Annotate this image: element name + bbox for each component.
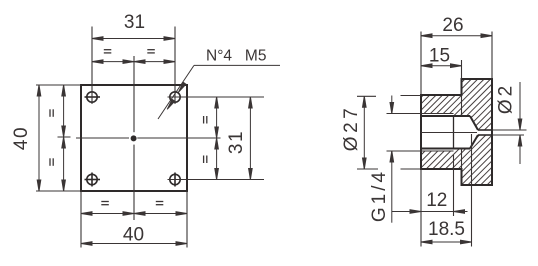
hole top-left centerline up [91,27,93,105]
svg-text:N°4 M5: N°4 M5 [206,48,266,65]
svg-text:40: 40 [123,225,144,246]
dimension O2 [518,82,522,164]
center dot [131,135,137,141]
equal mark right-bottom [204,156,207,164]
dimension 40 left [37,85,41,191]
equal mark left-bottom [50,158,53,166]
hole row line right bottom [168,179,265,181]
square plate outline [81,85,187,191]
dimension 18.5 [421,240,472,244]
equal mark top-right [147,50,155,53]
hole bottom-right [170,173,180,187]
dimension = bottom [81,212,187,216]
dimension 26 [421,34,492,38]
svg-text:Ø27: Ø27 [341,105,362,151]
dimension 31 top [92,37,175,41]
equal mark right-top [204,116,207,124]
extension 18.5 right [471,134,473,247]
dimension = right [215,97,219,180]
svg-text:31: 31 [226,130,247,154]
equal mark bottom-right [156,202,164,205]
leader N°4 M5 [158,65,280,119]
extension 18.5 left [420,169,422,247]
dimension = left [62,85,66,191]
svg-text:31: 31 [124,12,145,33]
extension O2 [492,130,527,135]
dimension = top [92,60,175,64]
dimension 12 [392,210,468,214]
equal mark left-top [50,109,53,117]
svg-text:26: 26 [442,15,463,36]
small hole O2 [478,130,492,135]
equal mark top-left [104,50,112,53]
equal mark bottom-left [101,202,109,205]
tick split left [58,136,71,138]
dimension O27 [363,96,367,169]
extension 15 right [461,60,463,79]
dimension G1/4 [390,96,394,223]
bore outline [421,116,478,149]
right edge extension down [186,191,188,248]
dimension 15 [421,64,462,68]
horizontal centerline [76,137,221,139]
top edge extension left [36,84,81,86]
left edge extension down [80,191,82,248]
svg-text:12: 12 [426,190,447,211]
svg-text:15: 15 [429,46,450,67]
hole top-right centerline up [174,27,176,105]
part outline [421,79,492,185]
extension 26 right [491,32,493,80]
dimension 31 right [249,97,253,180]
svg-text:G1/4: G1/4 [369,169,390,222]
hole top-right [170,92,180,102]
thread crest bottom [421,150,454,152]
step edge line [461,95,463,169]
svg-text:18.5: 18.5 [428,219,465,240]
extension G1/4 [387,114,422,152]
thread end line [453,116,455,149]
dimension 40 bottom [81,242,187,246]
svg-text:40: 40 [11,126,32,150]
bottom edge extension left [36,190,81,192]
svg-text:Ø2: Ø2 [496,83,517,114]
thread crest top [421,113,454,115]
hole bottom-left [85,173,101,187]
vertical centerline [133,56,135,220]
hole top-left [85,92,101,102]
hole row line right top [168,96,265,98]
extension 12 right [453,155,455,216]
axis centerline [421,132,477,134]
extension 26 left [420,32,422,96]
extension O27 ticks [357,96,421,170]
